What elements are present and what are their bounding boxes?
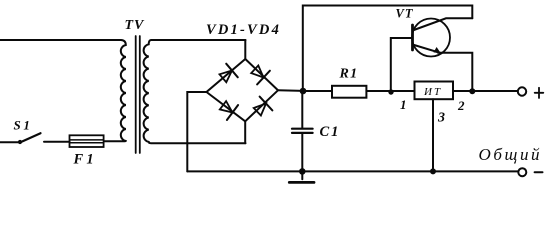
svg-text:VT: VT: [396, 7, 414, 21]
svg-text:2: 2: [457, 98, 465, 113]
svg-text:C1: C1: [320, 124, 341, 140]
svg-text:VD1-VD4: VD1-VD4: [206, 22, 281, 38]
svg-text:TV: TV: [125, 18, 146, 33]
svg-text:3: 3: [437, 111, 445, 126]
svg-text:S1: S1: [14, 118, 33, 133]
svg-text:Общий: Общий: [479, 145, 543, 164]
svg-text:R1: R1: [339, 67, 359, 82]
svg-text:ИТ: ИТ: [423, 86, 442, 98]
svg-text:F1: F1: [73, 152, 97, 168]
svg-text:1: 1: [400, 97, 407, 112]
